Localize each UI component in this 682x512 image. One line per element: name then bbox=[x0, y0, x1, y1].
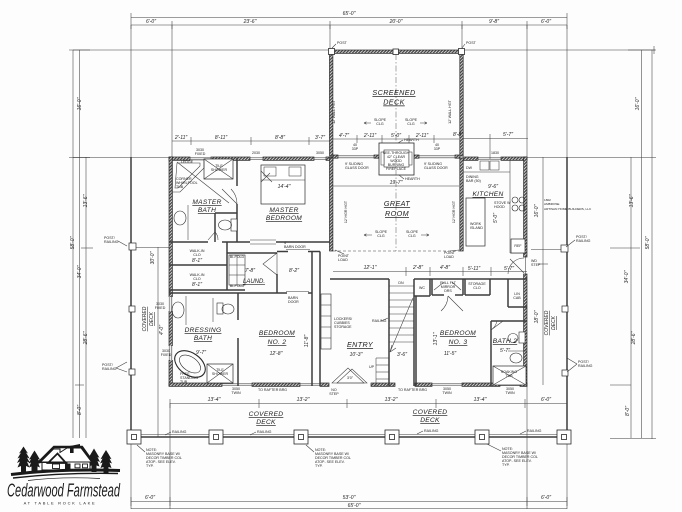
svg-text:33P: 33P bbox=[352, 147, 359, 151]
west wall window breaks bbox=[169, 297, 173, 360]
svg-text:7'-8": 7'-8" bbox=[245, 268, 255, 274]
upper-left horizontal extension at y=50 bbox=[73, 49, 330, 51]
svg-text:RAILING: RAILING bbox=[104, 240, 119, 244]
svg-text:8'-0": 8'-0" bbox=[625, 406, 631, 416]
svg-text:65'-0": 65'-0" bbox=[343, 11, 356, 17]
house west wall bbox=[169, 157, 172, 386]
svg-text:NO. 2: NO. 2 bbox=[268, 339, 287, 346]
svg-text:4'-8": 4'-8" bbox=[440, 265, 450, 271]
svg-text:58'-0": 58'-0" bbox=[70, 236, 76, 249]
svg-text:28'-6": 28'-6" bbox=[631, 331, 637, 345]
svg-text:13'-4": 13'-4" bbox=[208, 397, 221, 403]
svg-text:RAILING: RAILING bbox=[578, 364, 593, 368]
svg-text:MASTER: MASTER bbox=[192, 199, 221, 206]
svg-text:TWIN: TWIN bbox=[442, 391, 452, 395]
upper-right horizontal extension at y=50 bbox=[462, 49, 655, 51]
left deck rail line at y=247 bbox=[131, 247, 169, 249]
bottom deck dim line 13'-4"/13'-2"/13'-2"/13'-4"/6'-0" bbox=[170, 397, 567, 408]
right dim chain verticals bbox=[527, 50, 656, 439]
svg-text:CLO: CLO bbox=[193, 253, 201, 257]
svg-text:RAILING: RAILING bbox=[424, 429, 439, 433]
entry dims row bbox=[333, 265, 527, 276]
house north wall kitchen section bbox=[463, 151, 527, 160]
svg-text:TO RAFTER BRG: TO RAFTER BRG bbox=[398, 388, 427, 392]
svg-text:RAILING: RAILING bbox=[102, 367, 117, 371]
svg-text:13'-2": 13'-2" bbox=[385, 397, 398, 403]
great room beam line (dashed) bbox=[333, 250, 460, 252]
left deck top edge bbox=[73, 157, 169, 159]
svg-text:16'-0": 16'-0" bbox=[77, 97, 83, 110]
svg-text:NO. 3: NO. 3 bbox=[449, 339, 468, 346]
svg-text:13'-6": 13'-6" bbox=[83, 194, 89, 207]
svg-text:DW: DW bbox=[466, 166, 473, 170]
svg-text:8'-8": 8'-8" bbox=[275, 135, 285, 141]
top overall dimension 65'-0" bbox=[131, 11, 567, 21]
svg-text:9'-6": 9'-6" bbox=[488, 184, 498, 190]
svg-text:4'-0": 4'-0" bbox=[159, 325, 165, 335]
svg-text:GLASS DOOR: GLASS DOOR bbox=[424, 166, 448, 170]
right deck posts bbox=[561, 245, 568, 252]
svg-text:BEDROOM: BEDROOM bbox=[259, 330, 295, 337]
svg-text:TWIN: TWIN bbox=[231, 391, 241, 395]
svg-text:SCREENED: SCREENED bbox=[372, 88, 415, 97]
top extension lines bbox=[131, 25, 567, 157]
svg-text:CAB: CAB bbox=[513, 296, 521, 300]
POINT LOAD labels bbox=[335, 250, 459, 262]
svg-text:DECK: DECK bbox=[149, 311, 155, 326]
kitchen door to deck arc bbox=[508, 258, 524, 274]
svg-text:13'-1": 13'-1" bbox=[433, 332, 439, 345]
svg-text:BI-FOLD: BI-FOLD bbox=[230, 255, 245, 259]
dressing bath toilet bbox=[213, 298, 234, 322]
bottom overall 65'-0" bbox=[131, 503, 567, 509]
master bath vanity bbox=[174, 205, 188, 240]
work island bbox=[466, 198, 485, 246]
svg-text:WC: WC bbox=[419, 286, 425, 290]
svg-text:8'-0": 8'-0" bbox=[77, 405, 83, 415]
logo: left pine trees bbox=[17, 447, 41, 474]
right deck rail line bbox=[531, 249, 567, 251]
front entry double door bbox=[332, 368, 367, 383]
svg-text:3'-6": 3'-6" bbox=[397, 352, 407, 358]
svg-text:3050: 3050 bbox=[316, 151, 324, 155]
left POST/RAILING callouts bbox=[102, 236, 127, 372]
lower stair (up) bbox=[369, 358, 389, 386]
svg-text:DN: DN bbox=[398, 281, 404, 285]
svg-text:18'-0": 18'-0" bbox=[534, 310, 540, 323]
svg-text:LOAD: LOAD bbox=[444, 255, 454, 259]
logo: house bbox=[38, 444, 93, 471]
svg-text:11'-8": 11'-8" bbox=[304, 335, 310, 348]
svg-text:STEP: STEP bbox=[531, 263, 541, 267]
screened deck east wall bbox=[460, 50, 463, 156]
great room west wall (shared w/ master bedroom) bbox=[330, 158, 333, 251]
svg-text:LAUND.: LAUND. bbox=[243, 279, 265, 285]
master bedroom bed bbox=[261, 165, 305, 204]
svg-text:CLG: CLG bbox=[377, 234, 385, 238]
top chain dimension 6/23.5/20/9.67/6 bbox=[131, 19, 567, 29]
svg-text:RAILING: RAILING bbox=[257, 430, 272, 434]
kitchen 9'-7" dim bbox=[453, 132, 528, 159]
svg-text:5'-0": 5'-0" bbox=[391, 133, 401, 139]
svg-text:RAILING: RAILING bbox=[527, 429, 542, 433]
dressing bath vanity + sink bbox=[172, 296, 186, 325]
right covered deck outer edge bbox=[566, 157, 568, 437]
screened deck ridge centerline bbox=[395, 54, 397, 155]
svg-text:DECK: DECK bbox=[551, 315, 557, 330]
svg-text:12' WALL HGT: 12' WALL HGT bbox=[448, 99, 452, 124]
svg-text:TUB: TUB bbox=[180, 380, 188, 384]
storage closet right bbox=[465, 279, 490, 295]
logo: right pine trees bbox=[88, 449, 112, 474]
bottom chain dimension bbox=[131, 495, 567, 506]
svg-text:2030: 2030 bbox=[252, 151, 260, 155]
svg-text:DECK: DECK bbox=[383, 98, 405, 107]
svg-text:DRS: DRS bbox=[444, 289, 452, 293]
19'-7" dim bbox=[333, 185, 459, 187]
RAILING labels bottom deck bbox=[165, 429, 542, 435]
svg-text:COVERED: COVERED bbox=[249, 411, 284, 418]
svg-text:TWIN: TWIN bbox=[505, 391, 515, 395]
svg-text:65'-0": 65'-0" bbox=[348, 503, 361, 509]
corner whirlpool tub bbox=[172, 160, 204, 192]
master bedroom north dim row bbox=[172, 135, 330, 145]
house east wall bbox=[524, 157, 527, 257]
master bath east wall bbox=[236, 158, 238, 186]
walk-in closets bbox=[169, 242, 245, 290]
east wall door w/ WD STEP bbox=[524, 257, 526, 274]
bedroom2 / hall wall bbox=[277, 241, 320, 304]
svg-text:BATH 2: BATH 2 bbox=[493, 338, 517, 345]
masonry note 1 bbox=[137, 445, 182, 468]
stairs bbox=[372, 279, 414, 386]
south wall labels bbox=[231, 387, 515, 396]
master bath north fixtures: shower bbox=[204, 159, 233, 179]
logo: ground swoosh bbox=[11, 470, 120, 481]
svg-text:3'-7": 3'-7" bbox=[315, 135, 325, 141]
svg-text:DOOR: DOOR bbox=[288, 300, 299, 304]
svg-text:HEARTH: HEARTH bbox=[404, 138, 419, 142]
dressing bath walls bbox=[169, 293, 277, 386]
svg-text:11'-5": 11'-5" bbox=[444, 351, 457, 357]
svg-text:HOOD: HOOD bbox=[494, 205, 505, 209]
dims row right 5'-11 / 5'-7 bbox=[468, 266, 514, 272]
free standing tub bbox=[170, 345, 210, 384]
svg-text:2'-11": 2'-11" bbox=[174, 135, 188, 141]
svg-text:6'-0": 6'-0" bbox=[541, 19, 551, 25]
svg-text:COVERED: COVERED bbox=[544, 310, 550, 335]
master WC (toilet room) bbox=[208, 213, 237, 242]
svg-text:TO RAFTER BRG: TO RAFTER BRG bbox=[258, 388, 287, 392]
bottom deck posts bbox=[127, 430, 571, 444]
left deck 30'-0" dim bbox=[157, 247, 159, 437]
svg-text:5'-11": 5'-11" bbox=[468, 266, 481, 272]
linen cab bbox=[508, 279, 527, 307]
svg-text:CLG: CLG bbox=[407, 122, 415, 126]
svg-text:10'-3": 10'-3" bbox=[350, 352, 363, 358]
svg-text:14'-4": 14'-4" bbox=[278, 184, 291, 190]
svg-text:FIREPLACE: FIREPLACE bbox=[386, 167, 407, 171]
svg-text:34'-0": 34'-0" bbox=[624, 270, 630, 283]
svg-text:28'-6": 28'-6" bbox=[83, 331, 89, 345]
svg-text:GLASS DOOR: GLASS DOOR bbox=[345, 166, 369, 170]
svg-text:23'-6": 23'-6" bbox=[243, 19, 257, 25]
house north wall left section (hatched w/ windows) bbox=[169, 148, 333, 160]
svg-text:16'-0": 16'-0" bbox=[534, 204, 540, 217]
svg-text:DECK: DECK bbox=[256, 419, 276, 426]
bath 2 bbox=[491, 321, 527, 386]
svg-text:POST: POST bbox=[337, 41, 348, 45]
svg-text:9'-8": 9'-8" bbox=[489, 19, 499, 25]
svg-text:13'-4": 13'-4" bbox=[474, 397, 487, 403]
svg-text:TYP.: TYP. bbox=[146, 464, 154, 468]
dressing bath shower bbox=[207, 364, 233, 383]
bath2 tub bbox=[493, 366, 526, 385]
svg-text:SHOWER: SHOWER bbox=[212, 372, 229, 376]
masonry note 3 bbox=[487, 444, 538, 467]
svg-text:KITCHEN: KITCHEN bbox=[472, 191, 503, 198]
svg-text:ROOM: ROOM bbox=[385, 209, 409, 218]
svg-text:DECK: DECK bbox=[420, 417, 440, 424]
svg-text:34'-0": 34'-0" bbox=[77, 265, 83, 278]
svg-text:1830: 1830 bbox=[491, 151, 499, 155]
refrigerator bbox=[511, 239, 525, 253]
svg-text:Cedarwood Farmstead: Cedarwood Farmstead bbox=[7, 481, 121, 501]
svg-text:FIXED: FIXED bbox=[155, 306, 166, 310]
masonry note 2 bbox=[306, 445, 351, 468]
house south wall (hatched with openings) bbox=[169, 383, 527, 386]
see-through fireplace bbox=[379, 138, 420, 181]
svg-text:MASTER: MASTER bbox=[269, 207, 298, 214]
bedroom 3 bbox=[416, 296, 476, 386]
svg-text:CLO: CLO bbox=[193, 277, 201, 281]
SLOPE CLG screened deck bbox=[364, 118, 427, 126]
svg-text:9'-7": 9'-7" bbox=[196, 350, 206, 356]
left dim chain verticals bbox=[69, 50, 93, 438]
svg-text:6'-0": 6'-0" bbox=[541, 397, 551, 403]
svg-text:POST: POST bbox=[466, 41, 477, 45]
svg-text:12' HGR HGT: 12' HGR HGT bbox=[344, 200, 348, 223]
svg-text:6'-0": 6'-0" bbox=[145, 495, 155, 501]
svg-text:RAILING: RAILING bbox=[172, 430, 187, 434]
screened deck north wall (hatched) bbox=[330, 50, 463, 53]
svg-text:GREAT: GREAT bbox=[384, 199, 410, 208]
barn door master bbox=[250, 240, 276, 244]
svg-text:16'-0": 16'-0" bbox=[635, 97, 641, 110]
svg-text:12' HGR HGT: 12' HGR HGT bbox=[452, 200, 456, 223]
svg-text:5'-0": 5'-0" bbox=[493, 213, 499, 223]
svg-text:REF: REF bbox=[514, 244, 522, 248]
right POST/RAILING callouts bbox=[566, 235, 593, 372]
svg-text:5'-7": 5'-7" bbox=[504, 266, 514, 272]
SLOPE CLG great room bbox=[364, 230, 429, 238]
svg-text:RAILING: RAILING bbox=[576, 239, 591, 243]
svg-text:20'-0": 20'-0" bbox=[389, 19, 403, 25]
upper small rooms row wall bbox=[330, 279, 527, 296]
svg-text:FIXED: FIXED bbox=[195, 152, 206, 156]
hall 8'-2" + arcs bbox=[289, 268, 299, 274]
svg-text:12' WALL HGT: 12' WALL HGT bbox=[332, 99, 336, 124]
svg-text:LOAD: LOAD bbox=[338, 258, 348, 262]
left deck posts bbox=[129, 243, 136, 250]
left wall window labels bbox=[155, 302, 172, 357]
svg-text:CLO: CLO bbox=[473, 286, 481, 290]
svg-text:8'-2": 8'-2" bbox=[289, 268, 299, 274]
lockers / cubbies bbox=[321, 294, 352, 349]
svg-text:53'-0": 53'-0" bbox=[343, 495, 356, 501]
screened deck interior dim row bbox=[333, 133, 459, 151]
svg-text:BATH: BATH bbox=[198, 207, 216, 214]
svg-text:BATH: BATH bbox=[194, 335, 212, 342]
builder text block bbox=[544, 198, 592, 211]
svg-text:30'-0": 30'-0" bbox=[150, 251, 156, 264]
svg-text:2'-8": 2'-8" bbox=[412, 265, 423, 271]
big diagonal in master bath bbox=[177, 162, 229, 203]
svg-text:13'-2": 13'-2" bbox=[297, 397, 310, 403]
svg-text:8'-1": 8'-1" bbox=[192, 282, 202, 288]
svg-text:8'-8": 8'-8" bbox=[453, 132, 463, 138]
stove bbox=[493, 197, 525, 223]
bottom deck south edge bbox=[131, 436, 567, 438]
bottom extension lines bbox=[131, 386, 567, 509]
svg-text:BARN DOOR: BARN DOOR bbox=[284, 245, 306, 249]
svg-text:TUB: TUB bbox=[505, 374, 513, 378]
svg-text:19'-7": 19'-7" bbox=[390, 180, 403, 186]
great room east wall (shared w/ kitchen) bbox=[460, 158, 463, 251]
screened deck west wall bbox=[330, 50, 333, 156]
svg-text:AMBROSE: AMBROSE bbox=[544, 202, 559, 206]
svg-text:ENTRY: ENTRY bbox=[347, 340, 374, 349]
bedroom3 closet bbox=[432, 279, 463, 295]
svg-text:CLG: CLG bbox=[408, 234, 416, 238]
svg-text:TYP.: TYP. bbox=[502, 463, 510, 467]
svg-text:3'0": 3'0" bbox=[347, 376, 354, 380]
svg-text:BEDROOM: BEDROOM bbox=[266, 215, 302, 222]
svg-text:UP: UP bbox=[369, 365, 375, 369]
great room ridge line bbox=[395, 158, 397, 251]
svg-text:TYP.: TYP. bbox=[315, 464, 323, 468]
svg-text:ISLAND: ISLAND bbox=[470, 226, 483, 230]
svg-text:12'-8": 12'-8" bbox=[270, 351, 283, 357]
svg-text:AT TABLE ROCK LAKE: AT TABLE ROCK LAKE bbox=[24, 501, 97, 506]
door master bath->bedroom bbox=[222, 189, 237, 204]
svg-text:2'-11": 2'-11" bbox=[363, 133, 377, 139]
svg-text:BEDROOM: BEDROOM bbox=[440, 330, 476, 337]
svg-text:6'-0": 6'-0" bbox=[146, 19, 156, 25]
svg-text:BAR (50): BAR (50) bbox=[466, 179, 481, 183]
svg-text:6'-0": 6'-0" bbox=[541, 495, 551, 501]
svg-text:LEDGE: LEDGE bbox=[181, 160, 194, 164]
screened deck corner posts bbox=[329, 49, 335, 55]
laundry room bbox=[227, 253, 277, 293]
svg-text:HEARTH: HEARTH bbox=[405, 177, 420, 181]
svg-text:5'-7": 5'-7" bbox=[503, 132, 513, 138]
svg-text:8'-11": 8'-11" bbox=[215, 135, 228, 141]
svg-text:FIXED: FIXED bbox=[161, 353, 172, 357]
svg-text:TUB: TUB bbox=[176, 185, 184, 189]
bedroom 2 bbox=[259, 252, 320, 387]
svg-text:12'-1": 12'-1" bbox=[364, 265, 377, 271]
svg-text:DRESSING: DRESSING bbox=[185, 327, 222, 334]
svg-text:SHOWER: SHOWER bbox=[211, 168, 228, 172]
svg-text:33P: 33P bbox=[434, 147, 441, 151]
svg-text:STEP: STEP bbox=[329, 392, 339, 396]
svg-text:ARTISAN HOME BUILDERS, LLC: ARTISAN HOME BUILDERS, LLC bbox=[544, 207, 592, 211]
svg-text:COVERED: COVERED bbox=[142, 306, 148, 331]
svg-text:58'-0": 58'-0" bbox=[645, 236, 651, 249]
svg-text:COVERED: COVERED bbox=[413, 409, 448, 416]
svg-text:4'-7": 4'-7" bbox=[339, 133, 349, 139]
kitchen counters bbox=[463, 160, 527, 253]
svg-text:8'-1": 8'-1" bbox=[192, 258, 202, 264]
left covered deck outer edge bbox=[130, 157, 132, 437]
svg-text:STORAGE: STORAGE bbox=[334, 325, 352, 329]
master suite mid wall y=242 bbox=[169, 241, 208, 243]
right deck 16' and 18' dims bbox=[542, 157, 544, 385]
great room north wall with sliding doors bbox=[333, 155, 460, 170]
svg-text:13'-6": 13'-6" bbox=[629, 194, 635, 207]
svg-text:CLG: CLG bbox=[376, 122, 384, 126]
